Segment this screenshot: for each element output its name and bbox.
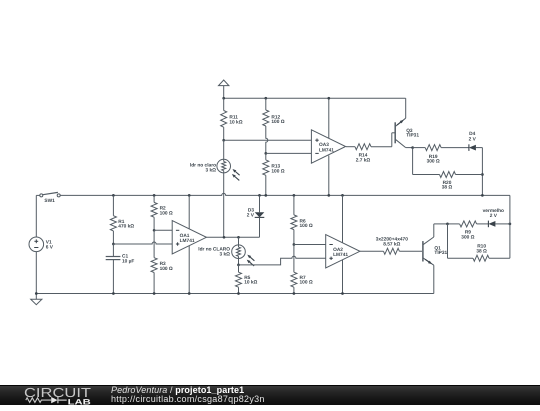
junction dot OA1 V- on rail xyxy=(188,292,191,295)
svg-text:3 kΩ: 3 kΩ xyxy=(219,251,230,257)
resistor R3 xyxy=(151,230,157,293)
junction dot R12-R13 node xyxy=(264,152,267,155)
svg-text:100 Ω: 100 Ω xyxy=(300,280,313,286)
junction dot LDR1 column to output xyxy=(223,236,226,239)
svg-text:OA3: OA3 xyxy=(319,142,329,148)
wire - ground bottom rail y=293.5 xyxy=(36,293,434,295)
label R19 xyxy=(427,154,440,165)
junction dot R1 top on middle rail xyxy=(112,194,115,197)
wire OA1 V+ pin xyxy=(188,195,190,229)
label R10 xyxy=(476,244,487,255)
diode vermelho xyxy=(488,221,510,228)
junction dot OA2 V- on rail xyxy=(341,292,344,295)
label vermelho xyxy=(483,208,504,219)
svg-text:100 Ω: 100 Ω xyxy=(300,223,313,229)
photoresistor LDR1 ldr no claro xyxy=(217,140,240,237)
wire D4 down to rail xyxy=(481,148,483,196)
wire OA1 V- pin xyxy=(188,246,190,294)
wire OA1 inverting input xyxy=(154,229,172,231)
wire OA3 V+ pin xyxy=(328,98,330,138)
resistor R10 xyxy=(448,224,510,261)
wire OA3 V- pin xyxy=(328,156,330,196)
resistor R20 xyxy=(413,148,483,178)
voltage source V1 xyxy=(29,195,44,293)
label OA2 xyxy=(333,247,348,258)
label R9 xyxy=(461,230,474,241)
svg-text:3x2200+4x470: 3x2200+4x470 xyxy=(376,236,408,242)
svg-text:10 µF: 10 µF xyxy=(122,258,134,264)
junction dot R20 right xyxy=(481,173,484,176)
junction dot vermelho right node xyxy=(509,223,512,226)
junction dot LDR2 top node xyxy=(237,236,240,239)
svg-text:38 Ω: 38 Ω xyxy=(442,185,453,191)
svg-text:LM741: LM741 xyxy=(180,238,195,244)
junction dot R6-R7 node xyxy=(293,243,296,246)
label R12 xyxy=(271,114,284,125)
svg-text:OA1: OA1 xyxy=(180,233,190,239)
power VCC symbol xyxy=(219,80,229,98)
capacitor C1 xyxy=(106,244,121,294)
wire - positive supply middle rail y=195.4 xyxy=(59,193,510,195)
junction dot R5 bottom xyxy=(237,292,240,295)
junction dot R9 left node xyxy=(446,223,449,226)
svg-text:470 kΩ: 470 kΩ xyxy=(118,224,134,230)
wire OA2 V+ pin xyxy=(342,195,344,243)
svg-text:100 Ω: 100 Ω xyxy=(160,210,173,216)
svg-text:TIP31: TIP31 xyxy=(434,250,447,256)
resistor R7 xyxy=(291,245,297,294)
resistor R2 xyxy=(151,195,157,230)
wire OA1 noninverting input xyxy=(113,242,172,244)
wire - top VCC rail y=98.2 xyxy=(224,97,406,99)
label D3 xyxy=(247,207,255,218)
resistor R6 xyxy=(291,195,297,244)
svg-text:10 kΩ: 10 kΩ xyxy=(229,119,242,125)
wire OA2 V- pin xyxy=(342,260,344,294)
ground xyxy=(31,294,42,305)
svg-text:LM741: LM741 xyxy=(333,252,348,258)
label ldr no CLARO xyxy=(198,247,230,258)
wire R8 to Q1 base xyxy=(399,250,422,252)
resistor R9 xyxy=(448,221,489,227)
svg-text:LAB: LAB xyxy=(68,397,92,405)
junction dot OA2 V+ on middle rail xyxy=(341,194,344,197)
op-amp OA2 xyxy=(326,235,360,268)
label OA3 xyxy=(319,142,334,153)
diode D4 xyxy=(469,144,483,151)
junction dot R2 top on middle rail xyxy=(153,194,156,197)
wire OA1 output xyxy=(206,236,259,238)
label R7 xyxy=(300,275,313,286)
footer text xyxy=(111,386,265,404)
label D4 xyxy=(469,131,477,142)
junction dot D3 top on middle rail xyxy=(258,194,261,197)
resistor R14 xyxy=(355,144,371,150)
wire OA2 output xyxy=(360,250,384,252)
wire OA3 inverting input xyxy=(266,152,312,154)
label Q3 xyxy=(406,128,419,139)
wire Q1 collector to node xyxy=(434,223,448,225)
svg-text:2.7 kΩ: 2.7 kΩ xyxy=(356,158,371,164)
resistor R12 xyxy=(263,98,269,153)
svg-text:D4: D4 xyxy=(469,131,475,137)
junction dot R3 bottom xyxy=(153,292,156,295)
transistor Q1 TIP31 xyxy=(423,224,434,294)
svg-text:300 Ω: 300 Ω xyxy=(427,159,440,165)
op-amp OA1 xyxy=(172,221,206,254)
svg-text:R14: R14 xyxy=(359,152,368,158)
resistor R5 xyxy=(236,265,242,294)
svg-text:100 Ω: 100 Ω xyxy=(271,119,284,125)
label R5 xyxy=(244,275,257,286)
junction dot OA3 V- on rail xyxy=(327,194,330,197)
junction dot R7 bottom xyxy=(293,292,296,295)
junction dot R11-LDR node xyxy=(222,139,225,142)
resistor R1 xyxy=(110,195,116,244)
wire LDR2 to OA2 noninverting xyxy=(239,256,326,265)
junction dot OA1 V+ on middle rail xyxy=(188,194,191,197)
junction dot LDR2 bottom node xyxy=(237,264,240,267)
wire right branch down xyxy=(509,195,511,258)
label R6 xyxy=(300,218,313,229)
svg-text:D3: D3 xyxy=(248,207,254,213)
svg-text:2 V: 2 V xyxy=(469,137,477,143)
wire OA2 inverting input xyxy=(294,244,326,246)
svg-text:vermelho: vermelho xyxy=(483,208,504,214)
svg-text:SW1: SW1 xyxy=(44,198,55,204)
svg-text:OA2: OA2 xyxy=(333,247,343,253)
resistor R19 xyxy=(413,145,469,151)
svg-text:100 Ω: 100 Ω xyxy=(160,266,173,272)
op-amp OA3 xyxy=(311,130,345,163)
junction dot D4 branch on rail xyxy=(481,194,484,197)
svg-text:TIP31: TIP31 xyxy=(406,133,419,139)
resistor R8 3x2200+4x470 xyxy=(384,248,400,254)
junction dot Q3 collector node xyxy=(411,146,414,149)
wire R14 to Q3 base xyxy=(371,146,392,148)
svg-text:38 Ω: 38 Ω xyxy=(476,248,487,254)
label ldr no claro xyxy=(190,163,216,174)
label Q1 xyxy=(434,246,447,257)
resistor R13 xyxy=(263,153,269,195)
label V1 xyxy=(46,239,54,250)
label OA1 xyxy=(180,233,195,244)
svg-text:6 V: 6 V xyxy=(46,244,54,250)
junction dot R2-R3 node xyxy=(153,229,156,232)
junction dot R13 bottom xyxy=(264,194,267,197)
label R2 xyxy=(160,206,173,217)
junction dot R12 top xyxy=(264,97,267,100)
label R13 xyxy=(271,164,284,175)
junction dot OA3 V+ on rail xyxy=(327,97,330,100)
label R8 xyxy=(376,236,408,247)
svg-text:2 V: 2 V xyxy=(247,212,255,218)
junction dot ground rail xyxy=(35,292,38,295)
label R14 xyxy=(356,152,371,163)
junction dot R6 top on middle rail xyxy=(293,194,296,197)
svg-text:300 Ω: 300 Ω xyxy=(461,234,474,240)
svg-text:3 kΩ: 3 kΩ xyxy=(205,167,216,173)
label SW1 xyxy=(44,198,55,204)
label R1 xyxy=(118,219,134,230)
logo CircuitLab xyxy=(20,385,118,411)
junction dot VCC on top rail xyxy=(222,97,225,100)
label C1 xyxy=(122,254,134,265)
label R3 xyxy=(160,261,173,272)
switch SW1 xyxy=(36,192,60,197)
junction dot C1 bottom xyxy=(112,292,115,295)
resistor R11 xyxy=(221,98,227,140)
svg-text:LM741: LM741 xyxy=(319,147,334,153)
junction dot R1-C1 node xyxy=(112,243,115,246)
svg-text:10 kΩ: 10 kΩ xyxy=(244,280,257,286)
label R11 xyxy=(229,115,242,126)
svg-text:100 Ω: 100 Ω xyxy=(271,168,284,174)
wire OA3 noninverting input xyxy=(224,139,312,141)
wire OA3 output xyxy=(346,146,355,148)
svg-text:8.57 kΩ: 8.57 kΩ xyxy=(383,242,400,248)
photoresistor LDR2 ldr no CLARO xyxy=(232,237,255,266)
transistor Q3 TIP31 xyxy=(392,98,413,147)
diode D3 xyxy=(255,195,265,237)
label R20 xyxy=(442,180,453,191)
svg-text:2 V: 2 V xyxy=(490,213,498,219)
